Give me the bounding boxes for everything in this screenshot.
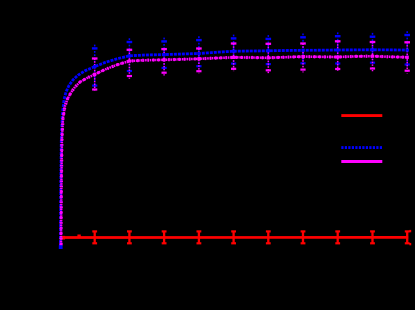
magenta point marker 2 [128,60,131,63]
red error bar 3 [162,231,167,243]
red error bar 4 [197,231,202,243]
red error bar 7 [301,231,306,243]
red small point marker [77,235,80,237]
blue point marker 1 [93,65,96,68]
magenta error bar 1 [92,59,98,93]
blue error bar 5 [231,35,237,66]
magenta error bar 6 [266,44,272,73]
red end cap fragment top [409,230,411,232]
magenta error bar 9 [370,42,376,71]
blue error bar 4 [196,36,202,68]
blue point marker 3 [163,53,166,56]
magenta point marker 5 [232,56,235,59]
red first point marker [61,236,65,240]
red error bar 9 [370,231,375,243]
blue error bar 3 [161,38,167,71]
legend red line [341,114,382,117]
blue point marker 7 [301,49,304,52]
blue point marker 6 [267,49,270,52]
blue error bar 9 [370,33,376,65]
magenta point marker 9 [371,55,374,58]
magenta error bar 10 [404,42,410,73]
magenta point marker 6 [267,56,270,59]
blue point marker 5 [232,50,235,53]
magenta error bar 4 [196,49,202,75]
red error bar 5 [231,231,236,243]
magenta point marker 4 [197,57,200,60]
blue error bar 6 [266,35,272,66]
magenta error bar 3 [161,49,167,75]
magenta error bar 5 [231,44,237,72]
blue error bar 10 [404,31,410,67]
magenta dotted curve [61,56,409,244]
magenta point marker 1 [93,73,96,76]
red error bar 10 [405,231,410,243]
magenta point marker 3 [163,58,166,61]
magenta error bar 7 [300,44,306,73]
blue error bar 1 [92,45,98,88]
blue point marker 9 [371,48,374,51]
blue error bar 2 [127,38,133,73]
blue point marker 4 [197,52,200,55]
blue point marker 10 [406,49,409,52]
legend blue dashed line [341,146,382,149]
red error bar 2 [127,231,132,243]
magenta point marker 10 [406,56,409,59]
red error bar 6 [266,231,271,243]
red end cap fragment bottom [409,243,411,245]
magenta error bar 8 [335,41,341,72]
magenta marker bumps [61,56,409,244]
blue point marker 2 [128,54,131,57]
legend magenta line [341,160,382,163]
red error bar 1 [92,231,97,243]
red error bar 8 [335,231,340,243]
red flat line series [62,237,409,238]
blue point marker 8 [336,48,339,51]
blue error bar 7 [300,34,306,66]
magenta error bar 2 [127,50,133,79]
magenta point marker 7 [301,55,304,58]
magenta point marker 8 [336,55,339,58]
magenta first point marker [60,243,63,246]
blue error bar 8 [335,32,341,66]
blue dotted curve [60,50,409,247]
blue first point marker [59,245,63,249]
